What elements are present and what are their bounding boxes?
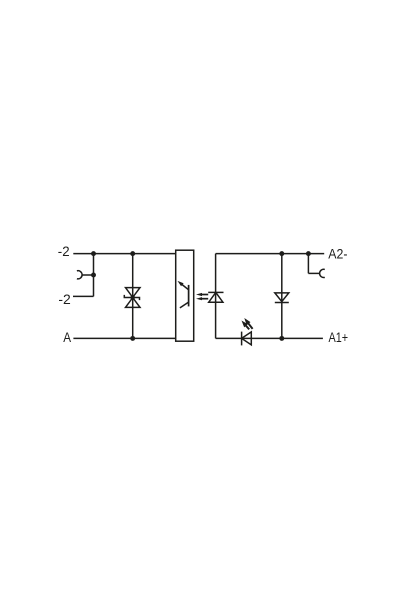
svg-text:-2: -2 — [58, 291, 71, 307]
svg-text:A2-: A2- — [328, 246, 347, 262]
svg-text:A: A — [63, 329, 71, 345]
svg-text:-2: -2 — [58, 243, 70, 259]
svg-text:A1+: A1+ — [329, 329, 349, 345]
